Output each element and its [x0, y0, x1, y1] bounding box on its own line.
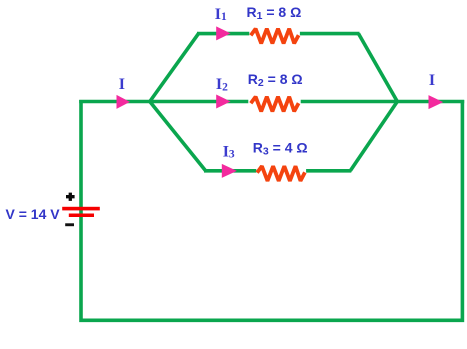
- svg-text:R2 = 8 Ω: R2 = 8 Ω: [248, 71, 303, 89]
- svg-text:I2: I2: [216, 76, 228, 93]
- battery V1 negative plate (short red line): [69, 214, 94, 218]
- wire bottom branch right horizontal: [306, 169, 351, 173]
- wire top branch right horizontal: [300, 32, 360, 36]
- battery V1 positive plate (long red line): [62, 207, 100, 211]
- svg-text:I3: I3: [223, 143, 235, 160]
- wire middle horizontal left segment: [79, 100, 248, 104]
- resistor R3: [257, 166, 305, 181]
- wire bottom branch left diagonal: [150, 102, 206, 171]
- current arrow I2 (middle branch): [216, 95, 230, 109]
- svg-text:R3 = 4 Ω: R3 = 4 Ω: [253, 140, 308, 158]
- wire top branch right diagonal: [359, 34, 398, 102]
- svg-text:R1 = 8 Ω: R1 = 8 Ω: [247, 4, 302, 22]
- battery + terminal sign: [66, 193, 75, 201]
- current arrow I (right main): [429, 95, 444, 109]
- wire outer loop (left vertical, bottom, right vertical): [81, 100, 462, 320]
- current arrow I (left main): [117, 95, 131, 109]
- battery - terminal sign: [65, 223, 74, 226]
- wire bottom branch right diagonal: [350, 102, 397, 171]
- svg-text:I1: I1: [215, 6, 227, 23]
- current arrow I3 (bottom branch): [222, 164, 237, 178]
- current arrow I1 (top branch): [216, 26, 230, 40]
- wire top branch left diagonal: [150, 34, 199, 102]
- svg-text:V = 14 V: V = 14 V: [6, 206, 61, 222]
- svg-text:I: I: [119, 76, 125, 93]
- svg-text:I: I: [429, 72, 435, 89]
- resistor R2: [251, 97, 299, 112]
- wire top branch left horizontal: [197, 32, 249, 36]
- resistor R1: [251, 29, 299, 44]
- wire bottom branch left horizontal: [204, 169, 256, 173]
- wire middle horizontal right segment: [301, 100, 465, 104]
